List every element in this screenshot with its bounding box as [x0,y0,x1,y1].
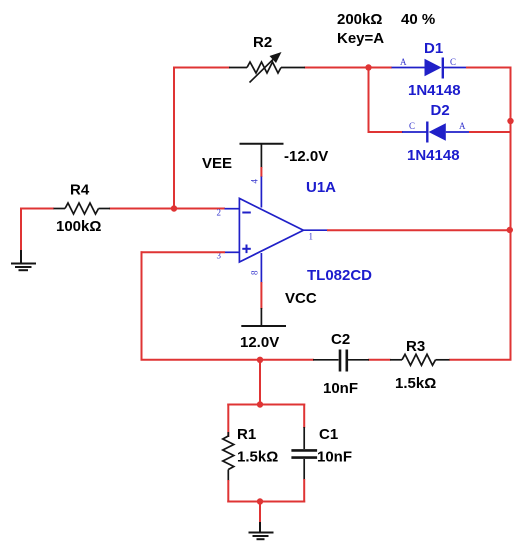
svg-text:R3: R3 [406,338,425,355]
wire ground stem red [259,502,261,524]
ground (bottom, GND2) [249,522,274,539]
svg-text:Key=A: Key=A [337,30,384,47]
svg-text:4: 4 [250,179,260,184]
capacitor C2 [313,350,369,372]
diode D2 [402,122,470,143]
node junction box top [257,401,263,407]
resistor R1 [223,432,234,481]
svg-text:1.5kΩ: 1.5kΩ [237,449,278,466]
wire box right rail upper [303,404,305,429]
wire VCC stem red segment [260,282,262,309]
svg-text:D2: D2 [431,102,450,119]
diode D1 [392,58,468,79]
wire diode branch vertical [368,68,370,134]
svg-text:R2: R2 [253,34,272,51]
node junction top (diode branch) [365,64,371,70]
capacitor C1 [291,427,317,480]
op-amp U1A [225,177,328,284]
node junction output row [507,227,513,233]
potentiometer R2 [229,52,305,83]
svg-text:10nF: 10nF [323,380,358,397]
svg-text:12.0V: 12.0V [240,334,279,351]
svg-text:1N4148: 1N4148 [407,147,460,164]
svg-text:100kΩ: 100kΩ [56,218,101,235]
wire left vertical of feedback loop [141,251,143,360]
wire inverting input row (R4 right to op-amp pin 2) [109,208,225,210]
svg-text:TL082CD: TL082CD [307,267,372,284]
node junction right vertical at D2 [507,118,513,124]
svg-text:A: A [459,121,466,131]
wire D2 to right vertical [469,131,512,133]
node junction bottom rail [257,357,263,363]
node junction inverting row / left vertical [171,205,177,211]
svg-text:C1: C1 [319,426,338,443]
resistor R4 [54,203,111,214]
svg-text:1: 1 [309,232,314,242]
svg-text:A: A [400,57,407,67]
wire D1 to right vertical [466,67,512,69]
svg-text:40 %: 40 % [401,11,435,28]
wire left ground vertical [20,208,22,253]
svg-text:8: 8 [250,270,260,275]
wire tank box top rail [227,404,305,406]
svg-text:C2: C2 [331,331,350,348]
wire box left rail upper [227,404,229,438]
svg-text:-12.0V: -12.0V [284,148,328,165]
wire R4 left to ground corner [20,208,54,210]
wire bottom rail R3 to right [449,359,512,361]
svg-text:10nF: 10nF [317,449,352,466]
wire output row [327,229,511,231]
svg-text:C: C [409,121,415,131]
svg-text:R4: R4 [70,182,90,199]
svg-text:VEE: VEE [202,155,232,172]
wire non-inverting row [141,251,226,253]
wire tank box bottom rail [227,501,305,503]
svg-text:1.5kΩ: 1.5kΩ [395,375,436,392]
wire box left rail lower [227,480,229,503]
svg-text:2: 2 [217,208,222,218]
svg-text:D1: D1 [424,40,443,57]
ground (left, GND1) [11,250,36,270]
wire VEE stem red segment [260,167,262,177]
wire right vertical [510,67,512,361]
svg-text:VCC: VCC [285,290,317,307]
node junction box bottom [257,498,263,504]
svg-text:200kΩ: 200kΩ [337,11,382,28]
wire D2 row left [369,131,404,133]
power VEE supply symbol [240,144,284,168]
wire top horizontal R2 to diode branch junction [304,67,392,69]
wire box right rail lower [303,479,305,503]
resistor R3 [390,354,450,365]
wire top horizontal from left corner to R2 [174,67,230,69]
power VCC supply symbol [241,308,286,326]
wire bottom rail [141,359,315,361]
wire tank branch vertical [259,360,261,406]
wire left vertical (top wire down to inverting input row) [173,67,175,210]
svg-text:U1A: U1A [306,179,336,196]
svg-text:C: C [450,57,456,67]
wire bottom rail C2 to R3 [368,359,391,361]
svg-text:R1: R1 [237,426,256,443]
svg-text:1N4148: 1N4148 [408,82,461,99]
